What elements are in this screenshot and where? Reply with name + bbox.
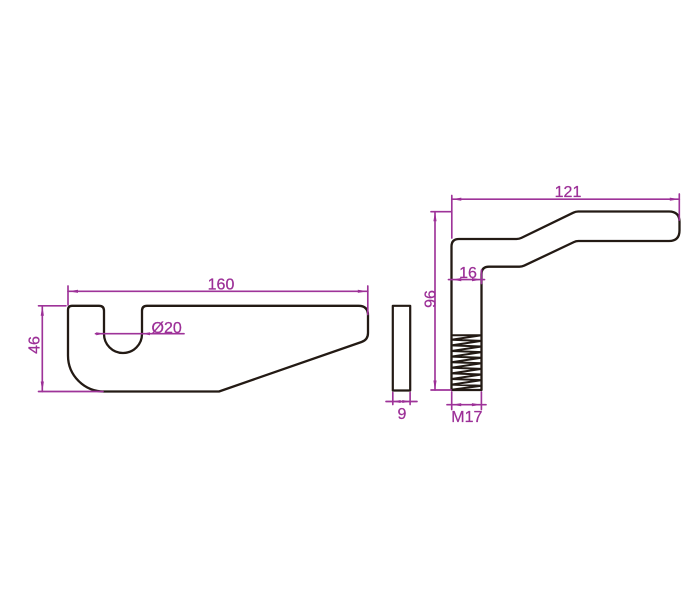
dimension 96 extension lines — [431, 212, 452, 390]
svg-text:Ø20: Ø20 — [152, 320, 182, 337]
svg-text:16: 16 — [459, 265, 477, 282]
dimension 96 arrows — [433, 212, 436, 390]
right view outline (bent bracket with threaded stem) — [452, 212, 680, 391]
dimension 16 extension line — [481, 270, 483, 284]
dimension M17 arrows — [452, 403, 482, 406]
dimension 9 extension lines — [393, 393, 410, 405]
dimension 121 extension lines — [452, 194, 680, 238]
dimension 9 arrows — [393, 400, 410, 403]
svg-text:160: 160 — [208, 276, 235, 293]
svg-text:9: 9 — [398, 406, 407, 423]
dimension 160 extension lines — [68, 286, 368, 315]
dimension 16 arrows — [452, 278, 482, 281]
svg-text:96: 96 — [423, 290, 440, 308]
dimension D20 leader line — [96, 333, 185, 335]
svg-text:121: 121 — [555, 184, 582, 201]
dimension M17 line — [447, 404, 486, 406]
thread zigzag on stem (M17 thread) — [452, 335, 482, 390]
dimension 46 line — [41, 306, 43, 392]
dimension 160 line — [68, 290, 368, 292]
middle view outline (plate thickness rectangle) — [393, 306, 410, 391]
dimension 160 arrows — [68, 290, 368, 293]
dimension 96 line — [434, 212, 436, 390]
dimension 9 line with outside arrows — [386, 401, 417, 403]
dimension M17 extension lines — [452, 392, 482, 410]
dimension D20 arrows — [96, 332, 150, 335]
svg-text:M17: M17 — [451, 409, 482, 426]
dimension 46 arrows — [41, 306, 44, 392]
dimension 46 extension lines — [39, 306, 104, 392]
dimension 16 line — [449, 279, 485, 281]
left view outline (hook plate profile) — [68, 306, 368, 392]
svg-text:46: 46 — [27, 336, 44, 354]
dimension 121 arrows — [452, 198, 680, 201]
dimension 121 line — [452, 198, 680, 200]
